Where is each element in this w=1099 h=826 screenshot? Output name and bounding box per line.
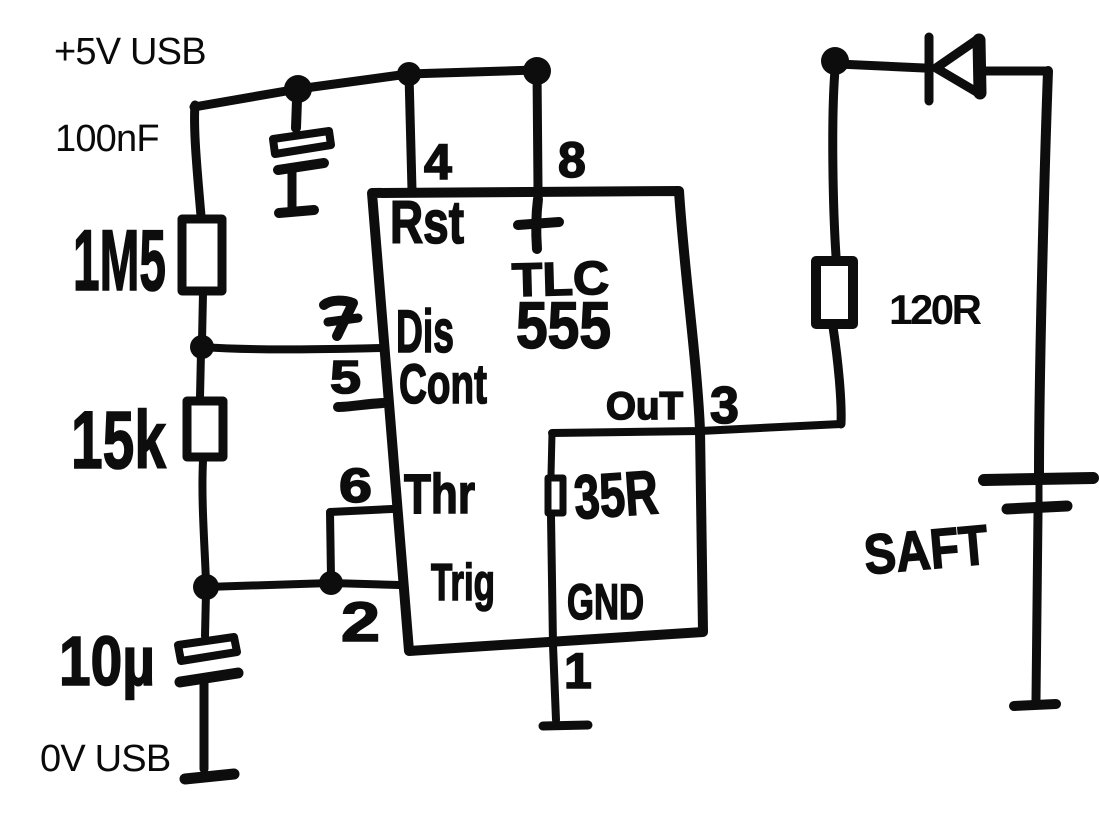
wire right rail (1039, 71, 1048, 474)
diode D1 triangle (936, 39, 980, 94)
wire pin7 (node D to Dis) (202, 347, 383, 349)
svg-text:4: 4 (424, 134, 452, 190)
svg-text:SAFT: SAFT (861, 513, 990, 587)
resistor R2 15k body (187, 401, 223, 457)
svg-text:3: 3 (710, 377, 739, 435)
node dot F (319, 571, 343, 595)
wire left rail upper (195, 105, 201, 216)
capacitor C1 stem bottom (288, 170, 297, 207)
wire pin4 (409, 74, 412, 190)
capacitor C2 end bar (185, 774, 234, 779)
node dot A (top of 100nF) (284, 75, 312, 103)
wire R1 to node D (202, 293, 203, 341)
wire out (inside box to pin3 corner) (552, 424, 841, 433)
resistor R1 1M5 body (182, 219, 222, 291)
pin number 7 (drawn crossed seven) (324, 301, 358, 336)
wire node G to diode (838, 64, 924, 68)
wire diode to right rail (980, 67, 1048, 76)
wire 35R to gnd (551, 516, 556, 720)
svg-text:OuT: OuT (606, 385, 683, 428)
wire trig (node E to pin2) (206, 583, 399, 587)
svg-text:+5V USB: +5V USB (54, 31, 206, 73)
svg-text:Thr: Thr (404, 462, 475, 525)
battery bottom wire (1036, 513, 1038, 700)
diode D1 anode bar (979, 40, 980, 93)
capacitor C1 100nF stem top (296, 100, 297, 128)
node dot B (pin4 top) (397, 62, 421, 86)
svg-text:Trig: Trig (431, 554, 495, 612)
wire top rail (194, 70, 536, 107)
svg-text:10µ: 10µ (59, 622, 155, 700)
svg-text:1M5: 1M5 (73, 213, 166, 309)
wire R2 to node E (202, 461, 206, 583)
svg-text:1: 1 (564, 643, 592, 699)
node dot E (193, 574, 219, 600)
svg-text:555: 555 (516, 288, 611, 362)
battery BT1 plate 1 (984, 478, 1093, 480)
wire pin6 (330, 509, 392, 578)
wire node G down to R4 (833, 70, 836, 256)
pin5 stub (338, 403, 383, 407)
wire out to 35R (551, 433, 552, 475)
svg-text:120R: 120R (889, 286, 982, 333)
wire pin8 (537, 70, 538, 188)
svg-text:35R: 35R (572, 458, 661, 533)
capacitor C1 bottom plate (278, 163, 324, 170)
svg-text:GND: GND (567, 574, 644, 630)
wire node D to R2 (200, 352, 201, 397)
battery end bar (1014, 704, 1056, 706)
resistor R4 120R body (816, 261, 853, 324)
node blob G (821, 47, 849, 75)
node dot C (pin8 top) (523, 57, 551, 85)
svg-text:Rst: Rst (390, 189, 464, 256)
wire R4 down to corner (833, 327, 841, 424)
node dot D (190, 335, 214, 359)
battery BT1 stub (1036, 485, 1043, 502)
capacitor C2 stem bottom (200, 680, 209, 769)
svg-text:8: 8 (558, 132, 586, 188)
label plus pin8 (drawn) (518, 199, 559, 249)
diode D1 cathode bar (925, 37, 934, 101)
IC U1 TLC555 box (372, 191, 703, 651)
capacitor C1 top plate (273, 131, 331, 154)
svg-text:5: 5 (330, 351, 361, 403)
capacitor C2 bottom plate (180, 673, 238, 682)
capacitor C2 10u stem (205, 592, 206, 636)
gnd end bar (543, 725, 588, 726)
capacitor C2 top plate (178, 637, 237, 661)
svg-text:0V USB: 0V USB (40, 738, 170, 780)
resistor R3 35R body (548, 478, 563, 513)
svg-text:15k: 15k (71, 395, 166, 486)
battery BT1 plate 2 (1007, 506, 1067, 509)
capacitor C1 end bar (279, 210, 314, 213)
svg-text:2: 2 (341, 590, 380, 653)
svg-text:Cont: Cont (399, 352, 487, 415)
svg-text:6: 6 (339, 460, 372, 513)
svg-text:100nF: 100nF (55, 118, 159, 160)
